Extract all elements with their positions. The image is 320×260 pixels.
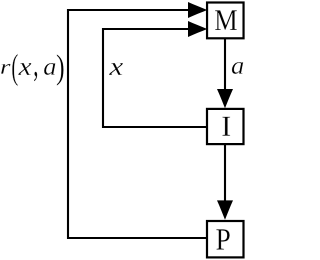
label r(x,a) glyph comma bbox=[34, 72, 37, 82]
label a bbox=[232, 62, 244, 74]
wire M to I bbox=[224, 38, 226, 91]
label r(x,a) glyph a bbox=[44, 63, 56, 75]
label r(x,a) glyph ) bbox=[57, 54, 64, 85]
arrowhead inner into M bbox=[188, 21, 207, 37]
letter M bbox=[215, 10, 237, 30]
label r(x,a) glyph ( bbox=[12, 54, 18, 86]
letter P bbox=[216, 229, 229, 249]
arrowhead outer into M bbox=[188, 2, 207, 18]
arrowhead into I bbox=[217, 89, 233, 108]
arrowhead into P bbox=[217, 200, 233, 219]
box I bbox=[207, 109, 244, 144]
wire I to P bbox=[224, 144, 226, 203]
label r(x,a) glyph x bbox=[18, 63, 31, 75]
box P bbox=[207, 221, 244, 257]
letter I bbox=[222, 117, 230, 136]
label x bbox=[109, 63, 123, 75]
label r(x,a) glyph r bbox=[1, 64, 11, 74]
wire inner loop I to M bbox=[103, 29, 207, 127]
box M bbox=[207, 3, 244, 39]
wire outer loop P to M bbox=[68, 10, 207, 238]
